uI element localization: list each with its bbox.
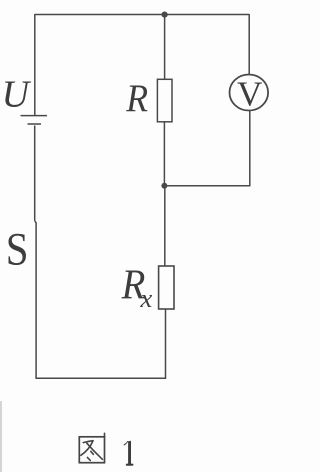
svg-text:V: V xyxy=(237,74,263,113)
wire middle bottom (Rx down to bottom wire) xyxy=(165,309,167,378)
battery U (long plate) xyxy=(21,115,48,117)
wire bottom xyxy=(35,377,166,379)
wire top (battery to top-right corner) xyxy=(35,14,249,16)
wire left upper (top corner down to battery) xyxy=(34,14,36,115)
wire middle lower (mid junction down to Rx) xyxy=(164,186,166,266)
node B (mid junction) xyxy=(161,183,167,189)
resistor Rx xyxy=(159,266,174,309)
caption 1 xyxy=(124,441,134,466)
wire middle upper (top junction to resistor R) xyxy=(164,15,166,80)
resistor R xyxy=(157,79,172,122)
voltmeter V (circle) xyxy=(230,75,269,111)
wire right upper (top-right corner down to voltmeter) xyxy=(248,14,250,75)
wire left mid (battery down to switch) xyxy=(34,126,36,221)
svg-text:S: S xyxy=(6,223,29,275)
svg-text:U: U xyxy=(2,74,32,116)
wire right lower (voltmeter down to connector) xyxy=(249,111,251,187)
node A (top junction) xyxy=(162,12,168,18)
caption 图 (drawn glyph) xyxy=(79,433,104,462)
switch S (small jog) xyxy=(35,221,37,223)
svg-text:R: R xyxy=(125,78,148,121)
svg-text:x: x xyxy=(140,283,153,313)
wire connector (mid junction to right branch) xyxy=(164,185,250,187)
scan edge artifact bottom-left xyxy=(0,401,2,472)
battery U (short thick plate) xyxy=(28,123,42,125)
wire left lower (switch down to bottom-left corner) xyxy=(35,223,37,379)
wire middle (R to mid junction) xyxy=(163,122,165,186)
